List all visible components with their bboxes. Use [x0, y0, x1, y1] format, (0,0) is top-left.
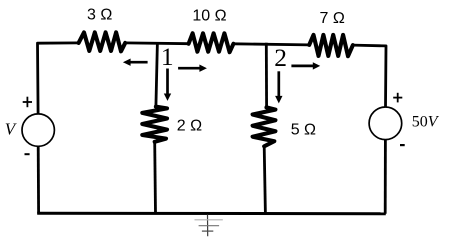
voltage source 50V (right) — [369, 107, 402, 140]
wire: node 2 branch lower — [264, 146, 265, 213]
wire: lower right branch — [384, 140, 387, 214]
current arrow down at node 2 — [275, 71, 282, 103]
wire: top span from 3 ohm to 10 ohm through node 1 — [125, 42, 188, 46]
wire: lower left branch — [37, 146, 40, 213]
svg-text:V: V — [5, 120, 18, 139]
resistor 2 ohm — [142, 107, 167, 142]
current arrow right at node 2 — [291, 62, 320, 69]
polarity - of source V — [25, 153, 30, 155]
svg-text:3 Ω: 3 Ω — [87, 6, 112, 23]
polarity + of source V — [23, 97, 32, 108]
svg-text:7 Ω: 7 Ω — [320, 10, 345, 27]
resistor 5 ohm — [253, 107, 276, 146]
wire: top span from 10 ohm to 7 ohm through node 2 — [233, 44, 309, 45]
voltage source V (left) — [22, 114, 54, 146]
svg-text:2 Ω: 2 Ω — [177, 117, 202, 134]
resistor 3 ohm — [79, 32, 126, 51]
resistor 7 ohm — [309, 35, 353, 56]
svg-text:2: 2 — [274, 43, 287, 72]
wire: node 1 branch upper — [156, 43, 158, 107]
wire: bottom rail — [37, 212, 386, 215]
svg-text:5 Ω: 5 Ω — [291, 121, 316, 138]
svg-text:50V: 50V — [412, 114, 440, 131]
ground — [195, 215, 223, 237]
svg-text:10 Ω: 10 Ω — [192, 7, 226, 24]
current arrow right at node 1 — [178, 65, 207, 72]
polarity - of source 50V — [400, 144, 405, 146]
wire: top-right corner and upper right branch — [353, 45, 386, 107]
svg-text:1: 1 — [161, 42, 174, 71]
current arrow left at node 1 — [123, 59, 148, 66]
wire: node 2 branch upper — [265, 43, 268, 108]
resistor 10 ohm — [189, 33, 234, 52]
wire: top-left corner and upper left branch — [38, 43, 79, 114]
wire: node 1 branch lower — [153, 142, 157, 214]
current arrow down at node 1 — [164, 69, 171, 101]
polarity + of source 50V — [393, 93, 402, 103]
